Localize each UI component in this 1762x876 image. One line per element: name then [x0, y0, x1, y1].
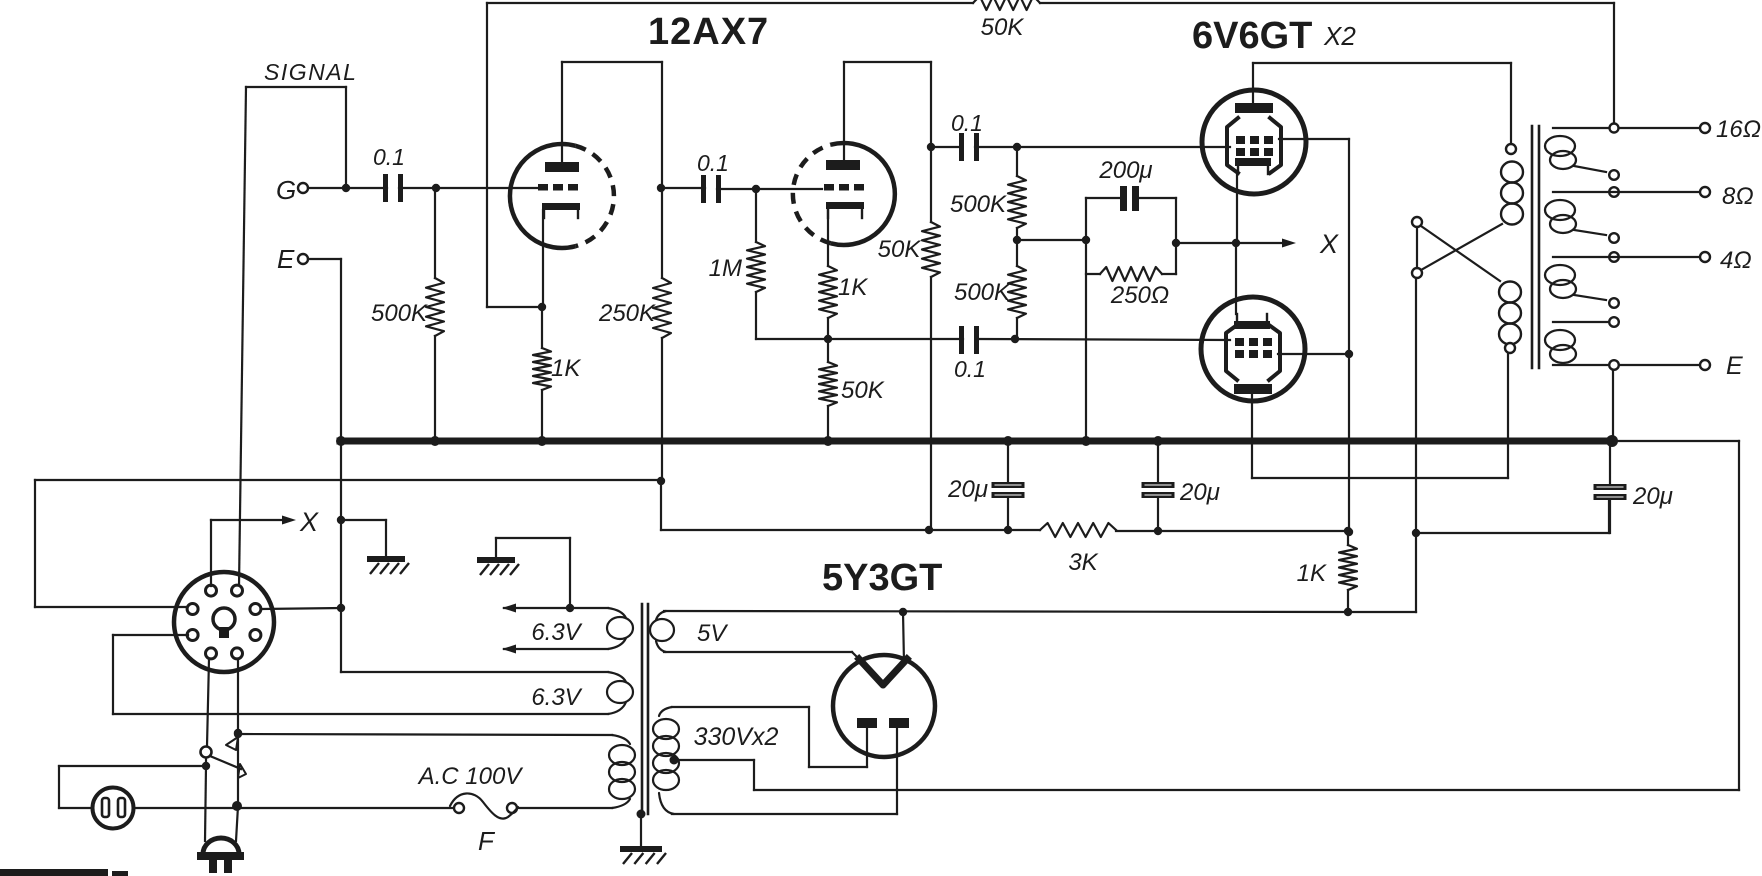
svg-text:500K: 500K	[950, 191, 1007, 218]
svg-text:330Vx2: 330Vx2	[694, 723, 779, 751]
svg-text:E: E	[277, 244, 295, 274]
svg-text:20μ: 20μ	[947, 476, 988, 503]
svg-text:0.1: 0.1	[373, 144, 405, 170]
svg-text:8Ω: 8Ω	[1722, 183, 1754, 210]
svg-text:0.1: 0.1	[954, 356, 986, 382]
svg-text:E: E	[1726, 352, 1743, 380]
svg-text:6.3V: 6.3V	[531, 684, 582, 711]
svg-text:1M: 1M	[709, 255, 742, 282]
svg-text:16Ω: 16Ω	[1716, 116, 1761, 143]
svg-text:5V: 5V	[697, 620, 728, 647]
svg-text:SIGNAL: SIGNAL	[264, 59, 357, 85]
svg-text:500K: 500K	[371, 300, 428, 327]
svg-text:500K: 500K	[954, 279, 1011, 306]
svg-text:6V6GT: 6V6GT	[1192, 15, 1312, 57]
svg-text:G: G	[276, 175, 296, 205]
svg-text:4Ω: 4Ω	[1720, 247, 1752, 274]
svg-text:3K: 3K	[1068, 549, 1098, 576]
svg-text:250Ω: 250Ω	[1110, 282, 1169, 309]
svg-text:20μ: 20μ	[1179, 479, 1220, 506]
svg-text:6.3V: 6.3V	[531, 619, 582, 646]
svg-text:A.C 100V: A.C 100V	[417, 763, 524, 790]
svg-text:5Y3GT: 5Y3GT	[822, 557, 942, 599]
svg-text:X2: X2	[1323, 21, 1356, 51]
svg-text:0.1: 0.1	[951, 110, 983, 136]
svg-text:X: X	[299, 507, 319, 537]
svg-text:200μ: 200μ	[1098, 157, 1152, 184]
svg-text:1K: 1K	[1297, 560, 1327, 587]
svg-text:12AX7: 12AX7	[648, 11, 769, 53]
svg-text:0.1: 0.1	[697, 150, 729, 176]
svg-text:50K: 50K	[878, 236, 922, 263]
svg-text:1K: 1K	[551, 355, 581, 382]
svg-text:20μ: 20μ	[1632, 483, 1673, 510]
svg-text:X: X	[1319, 229, 1339, 259]
svg-text:F: F	[478, 826, 496, 856]
svg-text:50K: 50K	[841, 377, 885, 404]
svg-text:50K: 50K	[981, 14, 1025, 41]
svg-text:1K: 1K	[838, 274, 868, 301]
svg-text:250K: 250K	[598, 300, 656, 327]
